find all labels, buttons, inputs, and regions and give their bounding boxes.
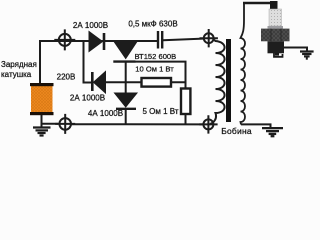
ground GND1 (below coil) [33, 128, 51, 136]
wire gate row to 5ohm resistor top [135, 62, 186, 89]
svg-text:220В: 220В [57, 73, 76, 82]
svg-text:4А 1000В: 4А 1000В [88, 109, 123, 118]
wire secondary top to spark plug [243, 2, 272, 4]
svg-text:ВТ152 600В: ВТ152 600В [135, 52, 177, 61]
wire secondary bottom to ground [241, 124, 271, 127]
charging coil L1 (Зарядная катушка) [30, 83, 54, 115]
svg-text:2А 1000В: 2А 1000В [73, 21, 108, 30]
wire branch to bottom connector [42, 123, 59, 125]
transformer T1 secondary winding [241, 3, 246, 125]
svg-text:2А 1000В: 2А 1000В [70, 94, 105, 103]
svg-text:катушка: катушка [1, 70, 32, 79]
diode VD3 4А 1000В (points down) [115, 93, 138, 109]
svg-text:5 Ом 1 Вт: 5 Ом 1 Вт [142, 107, 178, 116]
spark plug hex facet lines [271, 29, 281, 42]
spark plug center electrode [275, 53, 279, 56]
resistor R2 5 Ом 1 Вт (vertical) [181, 89, 190, 115]
wire top horizontal [40, 40, 157, 42]
wire 5ohm resistor to bottom wire [185, 114, 187, 125]
transformer T1 primary winding [210, 40, 225, 125]
svg-text:Бобина: Бобина [221, 126, 252, 136]
svg-text:0,5 мкФ 630В: 0,5 мкФ 630В [128, 20, 177, 29]
spark plug lower shell [268, 41, 285, 53]
wire diode VD3 to bottom wire [125, 109, 127, 125]
wire column thyristor to diode VD3 [125, 62, 127, 94]
connector X2 (crossed circle top-right) [200, 29, 218, 47]
spark plug hex body [261, 29, 290, 42]
diode VD1 2А 1000В [89, 32, 104, 52]
diode VD2 2А 1000В (points left) [92, 72, 105, 94]
capacitor C1 0,5 мкФ 630В [158, 31, 162, 49]
ground GND3 (spark plug) [300, 52, 314, 59]
connector X3 (crossed circle bottom-left) [55, 114, 75, 134]
spark plug ground electrode [274, 53, 283, 57]
wire spark plug to ground [284, 48, 307, 52]
spark plug terminal stud [270, 1, 278, 10]
wire into 10ohm resistor [126, 81, 186, 83]
connector X1 (crossed circle top-left) [54, 29, 75, 50]
connector X4 (crossed circle bottom-right) [199, 115, 217, 133]
svg-text:10 Ом 1 Вт: 10 Ом 1 Вт [135, 65, 174, 74]
thyristor VS1 ВТ152 (triangle down from top wire) [113, 42, 137, 62]
wire coil bottom to ground [41, 115, 43, 127]
wire top horizontal right of capacitor [163, 39, 203, 41]
transformer T1 core [226, 39, 231, 122]
svg-text:Зарядная: Зарядная [1, 60, 37, 69]
ground GND2 (bottom right, secondary) [262, 128, 283, 136]
wire bottom horizontal [70, 123, 203, 125]
resistor R1 10 Ом 1 Вт [142, 78, 172, 87]
spark plug insulator [269, 9, 282, 26]
wire middle row diode to column [106, 81, 127, 83]
spark plug insulator lower band [268, 26, 284, 29]
wire 220V branch vertical [84, 41, 92, 83]
wire left vertical down to charging coil [39, 40, 41, 84]
